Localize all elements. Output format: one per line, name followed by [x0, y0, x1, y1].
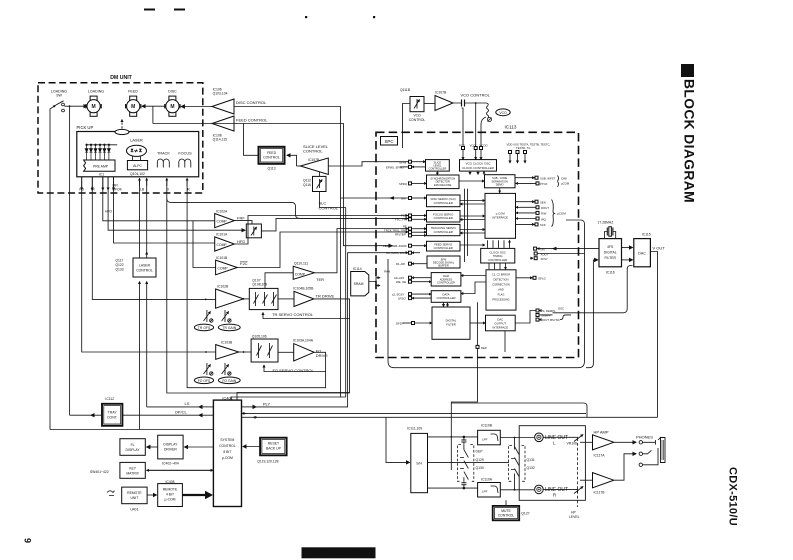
- wire bus slc down: [345, 208, 347, 398]
- 4FS digital filter box: [599, 239, 622, 267]
- svg-text:LINE OUT: LINE OUT: [545, 487, 568, 493]
- wire DAC vout: [650, 252, 657, 418]
- wire HFD comp out to IC113: [234, 216, 408, 245]
- wire vco junction down (VCOI): [475, 103, 477, 148]
- pin SPDQ: [399, 182, 427, 186]
- pin VSS: [516, 151, 519, 164]
- wire mute to lineout box: [505, 500, 507, 506]
- pin VDD: [509, 151, 512, 164]
- wire 4fs to dac 2: [622, 259, 633, 261]
- svg-text:CONTROLLER: CONTROLLER: [429, 167, 447, 171]
- svg-text:IC113: IC113: [505, 125, 517, 130]
- svg-text:SRAM: SRAM: [354, 282, 364, 286]
- pin XOUT: [534, 252, 584, 256]
- junction vco: [475, 102, 477, 104]
- clock osc timing controller box: [481, 248, 515, 263]
- svg-text:4FS: 4FS: [607, 245, 614, 249]
- svg-text:EFLG: EFLG: [539, 277, 546, 281]
- DEP switch dashed box: [458, 445, 474, 482]
- wire feed-control-box to amp: [244, 124, 260, 156]
- svg-text:PROCESSING: PROCESSING: [492, 297, 509, 301]
- wire laser control from below left: [139, 282, 141, 430]
- svg-text:Q105,106: Q105,106: [252, 334, 267, 338]
- svg-text:IC402~404: IC402~404: [162, 462, 179, 466]
- pin SAMPF: [536, 314, 553, 318]
- wire 4fs to dac 1: [622, 247, 633, 249]
- svg-text:Q114,115: Q114,115: [213, 138, 228, 142]
- wire subcode to ucom: [499, 188, 501, 193]
- TR offset trimmer: [204, 310, 214, 322]
- amp TR DRIVE: [294, 291, 314, 306]
- pin GM: [401, 197, 427, 201]
- wire coil to VCOO pin: [481, 117, 486, 148]
- svg-text:TR SERVO CONTROL: TR SERVO CONTROL: [272, 312, 314, 317]
- junction TR out: [243, 298, 245, 300]
- FEED CONTROL box: [259, 147, 285, 164]
- FL DISPLAY box: [120, 439, 145, 456]
- pin XFSY: [530, 257, 548, 261]
- pickup output 4: [107, 177, 109, 190]
- svg-text:CONTROLLER: CONTROLLER: [488, 258, 507, 262]
- svg-text:CLOCK CONTROLLER: CLOCK CONTROLLER: [462, 166, 495, 170]
- svg-text:RESET: RESET: [268, 442, 279, 446]
- svg-text:SPC: SPC: [384, 139, 393, 144]
- svg-text:IC101B: IC101B: [216, 256, 228, 260]
- svg-text:IC103A,104A: IC103A,104A: [293, 338, 314, 342]
- amp IC106 disc drive: [212, 99, 234, 114]
- svg-text:Q133: Q133: [115, 268, 123, 272]
- error correction box: [486, 270, 516, 310]
- registration tick mark left: [144, 9, 155, 11]
- TR switch bank box: [249, 288, 278, 309]
- svg-text:IC107B: IC107B: [435, 91, 447, 95]
- svg-text:XOUT: XOUT: [541, 252, 549, 256]
- svg-text:µCOM: µCOM: [561, 182, 570, 186]
- volume arrow R: [574, 487, 583, 494]
- vco coil: [476, 103, 489, 118]
- disc servo controller box: [427, 195, 461, 207]
- SYSTEM CONTROL box IC401: [213, 400, 241, 506]
- svg-text:DRIVER: DRIVER: [164, 448, 177, 452]
- wire sys bidirectional a: [242, 412, 247, 414]
- svg-text:µCOM: µCOM: [557, 211, 566, 215]
- svg-text:SW: SW: [56, 94, 62, 98]
- svg-text:BUFFER: BUFFER: [438, 264, 449, 268]
- registration dot 2: [373, 16, 375, 18]
- svg-text:LASER: LASER: [130, 139, 143, 143]
- wire R to amp B: [580, 479, 593, 481]
- svg-text:INTERFACE: INTERFACE: [492, 215, 508, 219]
- pin VCOO: [480, 144, 489, 160]
- svg-text:DEP: DEP: [481, 346, 487, 350]
- svg-text:Q132: Q132: [527, 466, 535, 470]
- wire key matrix to sys: [147, 469, 214, 471]
- svg-text:CONTROL: CONTROL: [319, 205, 339, 210]
- wire ram ctlr to error corr: [461, 275, 486, 277]
- pin WQ: [516, 217, 547, 221]
- wire 4fs lower input: [593, 259, 597, 261]
- svg-text:Q129: Q129: [476, 458, 484, 462]
- svg-text:LRSO: LRSO: [398, 296, 406, 300]
- svg-text:LASER: LASER: [139, 263, 151, 267]
- pin CK,DATA,BSY: [386, 251, 420, 255]
- svg-text:CONTROL: CONTROL: [303, 149, 323, 154]
- DFDF stub: [403, 322, 412, 324]
- CH8 uCOM brace: [558, 176, 570, 187]
- svg-text:IC117A: IC117A: [594, 454, 606, 458]
- wires timing ctlr down: [489, 263, 506, 269]
- routing corner audio top: [451, 403, 587, 417]
- pin P4,DEMP1 OSC: [536, 307, 564, 314]
- wire HFD pickup to comp A: [103, 177, 215, 221]
- svg-text:ALPC: ALPC: [133, 164, 142, 168]
- svg-text:RAM: RAM: [384, 270, 391, 274]
- wire laser control up to pickup: [139, 180, 141, 259]
- svg-text:AND: AND: [498, 287, 504, 291]
- pickup input LB arrows: [139, 178, 141, 186]
- svg-text:CONTROLLER: CONTROLLER: [434, 230, 453, 234]
- pin EFLG: [516, 276, 546, 280]
- svg-text:OP/CL: OP/CL: [175, 410, 188, 415]
- svg-text:HFD: HFD: [105, 210, 113, 214]
- wire lineout R to hp amp: [543, 488, 574, 490]
- svg-text:IC110B: IC110B: [481, 424, 493, 428]
- pin XIN: [534, 247, 600, 252]
- pin L2,EGSY: [392, 292, 431, 296]
- svg-text:FEED: FEED: [128, 90, 138, 94]
- line out enclosure box: [519, 426, 585, 501]
- svg-text:6: 6: [23, 538, 33, 543]
- pin FCS: [401, 214, 427, 218]
- motor LOADING: [86, 96, 101, 116]
- wire laser control LS from below right: [146, 282, 148, 407]
- TR OFS oval label: [194, 324, 213, 331]
- svg-text:M: M: [92, 104, 96, 110]
- svg-text:REMOTE: REMOTE: [127, 491, 142, 495]
- svg-text:DETECTION: DETECTION: [494, 277, 509, 281]
- MUTE CONTROL box: [493, 506, 520, 520]
- svg-text:LPF: LPF: [482, 437, 488, 441]
- svg-text:FEED: FEED: [267, 151, 277, 155]
- wire F2C comp input: [193, 221, 216, 268]
- wire data ctlr to error corr: [461, 282, 486, 294]
- wire F2C out: [237, 232, 408, 268]
- svg-text:DEMO: DEMO: [496, 183, 504, 187]
- motor FEED: [126, 96, 141, 116]
- remote sensor squiggle: [107, 491, 115, 496]
- amp TER comp: [293, 266, 314, 279]
- pin RF: [403, 224, 427, 230]
- amp IC101A comp: [215, 237, 235, 251]
- wire S/H out bottom: [428, 487, 478, 489]
- svg-text:CH8: CH8: [561, 176, 567, 180]
- pin TRCK,TRGL,TRHO: [384, 228, 427, 233]
- crystal 17.28MHZ: [605, 227, 616, 239]
- wire PLY: [242, 406, 257, 408]
- svg-text:FO GAIN: FO GAIN: [222, 379, 236, 383]
- svg-text:Q110,111: Q110,111: [294, 261, 308, 265]
- svg-text:HFD: HFD: [237, 239, 245, 244]
- svg-text:µ-COM: µ-COM: [222, 456, 233, 460]
- wire MRHFOK pickup to comp: [114, 177, 215, 243]
- S/H box: [411, 433, 428, 492]
- wire SLC control: [320, 192, 346, 208]
- wire loading switch down: [50, 106, 54, 429]
- vco coil ground: [488, 118, 492, 122]
- junction TR in: [205, 299, 207, 301]
- wires ucom to timing ctlr: [488, 240, 510, 248]
- FO GAIN oval label: [218, 377, 240, 384]
- wire dout to dac lower: [553, 266, 633, 313]
- wire FO drive loop to pickup: [187, 180, 326, 388]
- wire LS: [199, 406, 213, 408]
- uCOM interface box: [485, 193, 516, 238]
- IC113 dashed enclosure: [376, 132, 579, 357]
- pickup output TR: [91, 177, 93, 190]
- svg-text:BACK UP: BACK UP: [266, 447, 282, 451]
- subcode separation box: [485, 175, 516, 188]
- ALPC box: [127, 161, 147, 170]
- amp FO DRIVE: [294, 344, 314, 361]
- loading switch: [53, 105, 55, 107]
- DAC box: [634, 239, 651, 267]
- svg-text:DISC: DISC: [168, 90, 177, 94]
- wire sys top riser a: [237, 393, 350, 401]
- wire S/H out mid: [428, 461, 510, 463]
- wire TR drive loop to pickup: [167, 180, 350, 394]
- svg-text:FOCUS: FOCUS: [178, 152, 192, 156]
- svg-text:TESTD, T/L: TESTD, T/L: [516, 146, 531, 150]
- svg-text:VR106: VR106: [567, 442, 577, 446]
- svg-text:WE, OE: WE, OE: [396, 280, 406, 284]
- pin SUB,WFST: [515, 176, 556, 180]
- wire sram to ram pins: [369, 278, 380, 282]
- svg-text:TR: TR: [90, 188, 95, 192]
- svg-text:Q119,120,128: Q119,120,128: [257, 459, 278, 463]
- pin PTCK: [516, 182, 548, 186]
- HP level dashed wire: [577, 443, 579, 507]
- pin A0-A15: [394, 276, 431, 280]
- wire TR input: [92, 177, 215, 300]
- svg-text:M: M: [170, 104, 174, 110]
- RESET BACK UP box: [260, 438, 287, 456]
- wire slice to feed-control-box: [287, 155, 297, 166]
- pin FEB: [383, 244, 427, 248]
- TR gain trimmer: [222, 310, 231, 322]
- svg-text:TR OFS: TR OFS: [198, 326, 211, 330]
- wire DISC control into DISC motor: [181, 106, 212, 108]
- wire vco box left: [403, 104, 411, 149]
- amp IC107B slice (left pointing): [300, 158, 328, 175]
- svg-text:IC104B,105B: IC104B,105B: [293, 286, 314, 290]
- DM unit dashed enclosure: [38, 83, 203, 193]
- wire lineout L to hp amp: [543, 436, 574, 438]
- amp IC117A: [593, 435, 614, 450]
- KEY MATRIX box: [120, 462, 145, 478]
- wire remote to ic408: [147, 494, 156, 496]
- pin TEST: [524, 151, 527, 164]
- wire data ctlr to digital filter: [443, 302, 445, 306]
- svg-text:CONTROL: CONTROL: [498, 514, 515, 518]
- svg-text:FEB+, FEB−/FHDF: FEB+, FEB−/FHDF: [383, 244, 407, 248]
- svg-text:TR GAIN: TR GAIN: [222, 326, 236, 330]
- FO gain trimmer: [222, 363, 231, 375]
- svg-text:LB: LB: [140, 188, 145, 192]
- svg-text:CONTROLLER: CONTROLLER: [434, 201, 453, 205]
- svg-text:FILTER: FILTER: [604, 256, 616, 260]
- wire FO switch to drive: [278, 351, 294, 353]
- wire feed control bus: [234, 124, 392, 246]
- svg-text:CONTROL: CONTROL: [219, 444, 236, 448]
- svg-text:IC117B: IC117B: [594, 491, 606, 495]
- svg-text:DFDF: DFDF: [396, 322, 404, 326]
- pin EFMG: [386, 165, 426, 169]
- wire dac interface right: [515, 311, 536, 324]
- outer routing loop around IC113: [388, 220, 585, 368]
- amp IC107B vco (right pointing): [435, 96, 453, 111]
- svg-text:Q117: Q117: [115, 259, 123, 263]
- svg-text:CONTROL: CONTROL: [409, 118, 426, 122]
- pin VCOI: [470, 144, 478, 160]
- svg-text:DAC: DAC: [638, 251, 646, 255]
- svg-text:CONTROLLER: CONTROLLER: [434, 216, 453, 220]
- wire sys to display driver: [185, 446, 214, 448]
- pickup output FO: [81, 177, 83, 190]
- wire TR amp out: [244, 298, 250, 300]
- svg-text:Q103,104: Q103,104: [213, 92, 228, 96]
- svg-text:SW401~422: SW401~422: [90, 470, 109, 474]
- wire DISC motor to FEED motor: [142, 105, 166, 107]
- wire junction down (OP/CL): [69, 106, 71, 415]
- capacitor DEP bottom: [461, 481, 466, 489]
- volume arrow L: [574, 435, 583, 442]
- svg-text:SCK: SCK: [540, 223, 546, 227]
- svg-text:IC112: IC112: [105, 397, 114, 401]
- svg-text:SYSTEM: SYSTEM: [220, 438, 234, 442]
- pin PCO: [459, 108, 466, 160]
- svg-text:SAMPF: SAMPF: [541, 314, 551, 318]
- svg-text:IC102B: IC102B: [217, 285, 229, 289]
- svg-text:EFMG, EFMG: EFMG, EFMG: [386, 165, 404, 169]
- motor DISC: [165, 96, 180, 116]
- pin LSO: [398, 296, 431, 300]
- svg-text:R: R: [553, 493, 556, 498]
- svg-text:Q130: Q130: [476, 466, 484, 470]
- wire FRF comp out: [234, 221, 252, 224]
- pin FSC,FRF: [395, 218, 427, 222]
- svg-text:SEN: SEN: [540, 201, 546, 205]
- wire slice ctrl to sync: [436, 171, 438, 175]
- svg-text:C1, C2 ERROR: C1, C2 ERROR: [492, 272, 510, 276]
- svg-text:µ-COM: µ-COM: [165, 497, 176, 501]
- svg-text:TER: TER: [316, 277, 324, 282]
- photodiode array top rail: [87, 144, 118, 146]
- svg-text:V OUT: V OUT: [653, 246, 666, 251]
- wires servo ctlrs to ucom: [460, 200, 485, 202]
- remote uCOM box IC408: [158, 484, 183, 507]
- pin DEP bottom: [476, 345, 487, 350]
- svg-text:Q131: Q131: [527, 458, 535, 462]
- wire DEP path down: [451, 348, 477, 470]
- pin DOUT: [516, 206, 549, 210]
- svg-text:RFLTER: RFLTER: [395, 232, 406, 236]
- pin RFLTER: [395, 232, 427, 237]
- capacitor DEP top: [461, 436, 466, 445]
- svg-text:Q111B: Q111B: [400, 88, 411, 92]
- LASER CONTROL box: [133, 258, 156, 277]
- svg-text:PICK UP: PICK UP: [77, 125, 94, 130]
- svg-text:FL: FL: [131, 443, 135, 447]
- svg-text:PTCK: PTCK: [540, 182, 548, 186]
- svg-text:OSC: OSC: [558, 307, 564, 311]
- svg-text:FSC, FRF: FSC, FRF: [395, 218, 408, 222]
- wires vco box to sync: [469, 171, 471, 174]
- wire bus disc down: [340, 198, 342, 397]
- DAC output interface box: [486, 315, 516, 331]
- amp IC101B comp: [216, 260, 238, 275]
- wire S/H out top: [428, 436, 478, 438]
- pickup output 3: [102, 177, 104, 190]
- wire bottom left long: [50, 429, 213, 431]
- svg-text:COMP: COMP: [218, 267, 229, 271]
- Q112 Q116 variable resistor box: [313, 176, 327, 191]
- track coil: [157, 159, 169, 168]
- pickup lens dashed arrow: [121, 120, 123, 129]
- wire disc control bus: [234, 107, 408, 199]
- capacitor vco: [453, 100, 476, 107]
- svg-text:EFM DECODE: EFM DECODE: [434, 183, 452, 187]
- svg-text:LINE OUT: LINE OUT: [545, 435, 568, 441]
- svg-text:D1~D8: D1~D8: [396, 262, 405, 266]
- svg-text:DISC CONTROL: DISC CONTROL: [236, 100, 267, 105]
- FO offset trimmer: [204, 363, 214, 375]
- junction FO out: [243, 351, 245, 353]
- wire digital filter to dac interface: [470, 322, 486, 324]
- svg-text:REMOTE: REMOTE: [163, 487, 178, 491]
- svg-text:CONTROLLER: CONTROLLER: [436, 296, 455, 300]
- svg-text:IC116: IC116: [606, 270, 615, 274]
- svg-text:CORRECTION: CORRECTION: [492, 282, 510, 286]
- pickup lens oval: [115, 129, 129, 134]
- svg-text:SUB, WFST: SUB, WFST: [540, 177, 556, 181]
- pin SEN: [516, 200, 546, 204]
- FRF switch box: [246, 224, 261, 238]
- pickup enclosure box: [77, 132, 199, 177]
- svg-text:LPF: LPF: [482, 490, 488, 494]
- pickup output MR HFOK: [113, 177, 115, 190]
- wire ic408 to sys thick: [182, 494, 206, 496]
- wire DEP pin up: [477, 302, 479, 345]
- wire FO input: [82, 177, 216, 352]
- wire loading motor feed: [64, 105, 87, 107]
- digital filter box: [432, 307, 470, 339]
- pickup input 0 arrow: [166, 178, 168, 186]
- svg-text:MATRIX: MATRIX: [126, 471, 139, 475]
- svg-text:TR DRIVE: TR DRIVE: [316, 294, 335, 299]
- svg-text:DM UNIT: DM UNIT: [110, 75, 132, 81]
- svg-text:Q116: Q116: [303, 183, 311, 187]
- svg-text:IC114: IC114: [353, 267, 362, 271]
- TR GAIN oval label: [218, 324, 240, 331]
- svg-text:BLOCK DIAGRAM: BLOCK DIAGRAM: [682, 79, 697, 203]
- footer black box: [302, 547, 376, 558]
- svg-text:DISPLAY: DISPLAY: [163, 443, 178, 447]
- svg-text:S/H: S/H: [416, 462, 422, 466]
- amp IC102A comp: [215, 214, 235, 228]
- pin R/W: [516, 211, 547, 215]
- registration tick mark right: [174, 9, 185, 11]
- wire slice amp output: [297, 165, 301, 167]
